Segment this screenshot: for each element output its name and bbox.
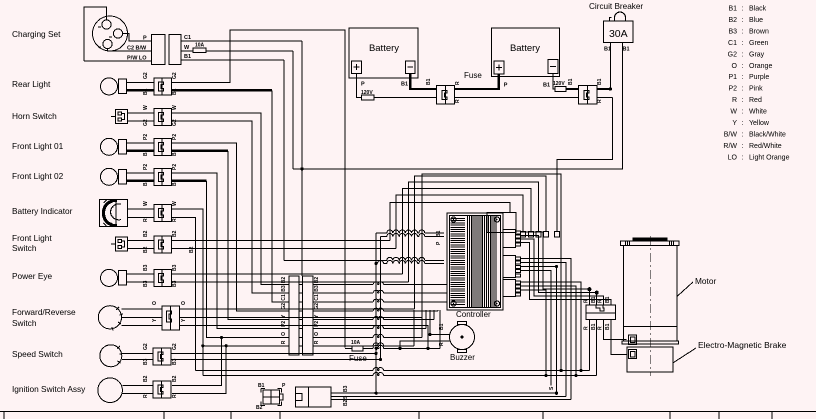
wire riser cluster 5 to controller	[415, 176, 546, 309]
svg-text:Yellow: Yellow	[749, 120, 770, 127]
8-pin connector row 4 jumper and output	[299, 310, 303, 312]
svg-text:P: P	[361, 82, 365, 88]
wire fwd/rev 1 to riser cluster	[179, 308, 414, 310]
wire front light01 B1 riser to row6	[172, 150, 229, 152]
wire riser cluster 2 to controller	[396, 195, 523, 248]
controller right connector stub 2	[503, 256, 516, 278]
horn switch	[116, 110, 128, 124]
svg-text:R: R	[314, 340, 320, 344]
front light 01 lamp	[101, 138, 118, 155]
fuse 10A	[352, 346, 363, 351]
svg-text:C1: C1	[281, 294, 287, 301]
svg-text:R: R	[172, 394, 178, 398]
svg-text:W: W	[172, 105, 178, 110]
svg-text:Light Orange: Light Orange	[749, 154, 790, 161]
wire riser cluster 6 long right	[422, 174, 561, 371]
svg-text:O: O	[314, 332, 320, 336]
wire controller group2 out 1	[521, 259, 572, 400]
wire speed switch 2 riser to controller pin	[172, 237, 381, 360]
connector front light 01	[154, 138, 162, 155]
svg-text:P2: P2	[172, 164, 178, 170]
svg-text::: :	[742, 97, 744, 104]
battery indicator gauge	[99, 199, 127, 226]
8-pin connector row 3 jumper and output	[299, 301, 303, 303]
8-pin connector row 1 jumper and output	[299, 284, 303, 286]
battery 2 minus terminal	[548, 60, 558, 74]
wire controller group2 out 4	[521, 271, 552, 386]
svg-text:Red/White: Red/White	[749, 143, 782, 150]
wire fuse connector2 to circuit breaker	[597, 88, 611, 90]
svg-text:G2: G2	[172, 72, 178, 79]
svg-text:P: P	[143, 36, 147, 42]
connector power eye	[154, 269, 162, 286]
motor body	[622, 246, 624, 341]
svg-text:Purple: Purple	[749, 74, 769, 81]
svg-text:White: White	[749, 109, 767, 116]
svg-text:B3: B3	[728, 28, 737, 35]
svg-text:B1: B1	[426, 78, 432, 85]
8-pin connector row 5 jumper and output	[299, 319, 303, 321]
forward/reverse rotary switch	[98, 306, 121, 329]
svg-text:10A: 10A	[351, 340, 361, 346]
wire power eye to riser cluster	[172, 273, 403, 275]
controller top-right terminal box	[487, 212, 516, 232]
svg-text:30A: 30A	[609, 28, 628, 40]
svg-text:B3: B3	[172, 264, 178, 271]
svg-text:Charging Set: Charging Set	[12, 29, 61, 39]
electro-magnetic brake body	[627, 347, 673, 372]
svg-text:C1: C1	[314, 294, 320, 301]
rear light wires to connector	[127, 82, 154, 84]
motor top cap	[633, 238, 667, 241]
svg-text:O: O	[152, 301, 158, 305]
svg-text:R: R	[455, 99, 461, 103]
connector front light 02	[154, 168, 162, 185]
connector ignition switch	[153, 381, 161, 398]
battery 2 plus terminal	[494, 61, 504, 74]
svg-text:W: W	[184, 45, 190, 51]
wire P from pin2 to connector	[123, 34, 152, 42]
svg-text:B3: B3	[172, 280, 178, 287]
wire riser cluster 3 to controller	[402, 189, 531, 274]
wire front light switch to riser cluster	[172, 239, 390, 241]
label Electro-Magnetic Brake with leader	[673, 348, 696, 363]
svg-text:LO: LO	[728, 154, 738, 161]
svg-text:Power Eye: Power Eye	[12, 271, 53, 281]
wire conn2 row2 stub	[597, 97, 613, 99]
svg-text:B1: B1	[597, 78, 603, 85]
connector charging 3-pin	[152, 35, 165, 65]
fuse connector F2	[579, 86, 588, 104]
connector horn switch	[154, 109, 162, 126]
svg-text:B1: B1	[184, 54, 191, 60]
front light 02 lamp	[101, 168, 118, 185]
wire bottom run 375.5	[203, 375, 373, 377]
connector rear light	[154, 78, 162, 95]
svg-text:B2: B2	[189, 246, 195, 253]
title block dividers	[3, 412, 5, 419]
motor top flange	[621, 241, 679, 246]
svg-text:B1: B1	[143, 179, 149, 186]
svg-text:B3: B3	[143, 280, 149, 287]
svg-text:Black: Black	[749, 6, 767, 13]
svg-text:Blue: Blue	[749, 17, 763, 24]
svg-text:B2: B2	[281, 277, 287, 284]
svg-text:B3: B3	[281, 285, 287, 292]
wire controller group3 out 2	[521, 286, 577, 376]
svg-text::: :	[742, 131, 744, 138]
svg-text:B3: B3	[143, 264, 149, 271]
controller screw bottom-left	[451, 301, 456, 306]
controller top terminal pins	[521, 232, 526, 238]
svg-text:B1: B1	[143, 88, 149, 95]
svg-text:B3: B3	[314, 285, 320, 292]
svg-text:G2: G2	[281, 303, 287, 310]
bottom connector wires to right	[331, 392, 557, 394]
svg-text:B2: B2	[256, 405, 263, 411]
charging socket pin 2	[113, 29, 122, 38]
svg-text:Battery Indicator: Battery Indicator	[12, 206, 73, 216]
svg-text:Rear Light: Rear Light	[12, 79, 51, 89]
svg-text:B1: B1	[591, 323, 597, 330]
svg-text::: :	[742, 6, 744, 13]
wire battery feed down to controller top	[557, 98, 613, 232]
8-pin connector row 2 jumper and output	[299, 292, 303, 294]
wire battery1 - B1 to fuse connector	[410, 73, 436, 89]
svg-text:B1: B1	[258, 383, 265, 389]
svg-text:B2: B2	[143, 230, 149, 237]
svg-text:G2: G2	[172, 343, 178, 350]
svg-text:G2: G2	[143, 343, 149, 350]
front light switch wires	[127, 239, 153, 241]
battery indicator wires	[127, 208, 153, 210]
svg-text:Buzzer: Buzzer	[450, 353, 475, 362]
wire B1 output	[181, 59, 284, 61]
controller right connector stub 3	[503, 280, 516, 297]
wire front light switch 2 to riser cluster	[172, 247, 397, 249]
svg-text:W: W	[143, 105, 149, 110]
svg-text:P2: P2	[728, 86, 737, 93]
svg-text:Orange: Orange	[749, 63, 772, 70]
svg-text:Electro-Magnetic Brake: Electro-Magnetic Brake	[698, 340, 787, 350]
wire front light02 B1 riser to row8	[172, 180, 207, 182]
brake terminal box 1	[629, 335, 637, 344]
svg-text:B/W: B/W	[724, 131, 738, 138]
wire rear light top loop to 10A fuse feed	[172, 30, 346, 347]
svg-text:C2 B/W: C2 B/W	[127, 46, 147, 52]
svg-text:B1: B1	[439, 323, 445, 330]
wire controller out to brake connector pin4	[521, 243, 612, 306]
svg-text:10A: 10A	[195, 43, 205, 49]
wire C1 output	[181, 40, 302, 42]
svg-text:W: W	[143, 201, 149, 206]
wire battery2 - B1 with diode 120V	[553, 73, 555, 89]
svg-text:O: O	[732, 63, 738, 70]
wire controller group2 out 2	[521, 263, 567, 397]
forward/reverse wires	[122, 308, 163, 310]
wire ignition 2 up to row8	[172, 346, 226, 394]
svg-text:C1: C1	[184, 35, 191, 41]
svg-text:Switch: Switch	[12, 318, 37, 328]
8-pin connector row 7 jumper and output	[299, 336, 303, 338]
svg-text:Pink: Pink	[749, 86, 763, 93]
svg-text:B3: B3	[343, 385, 349, 392]
key switch symbol	[263, 390, 280, 404]
svg-text::: :	[742, 28, 744, 35]
svg-text::: :	[742, 17, 744, 24]
title block top line	[0, 411, 816, 413]
wire power eye 2 to riser cluster	[172, 281, 409, 283]
svg-text:R: R	[439, 342, 445, 346]
svg-text:R: R	[143, 218, 149, 222]
8-pin connector row 8 jumper and output	[299, 345, 303, 347]
wire controller out to brake connector pin1	[521, 232, 590, 305]
charging socket CN1 housing	[84, 7, 107, 61]
connector 8-pin harness right half	[303, 276, 314, 355]
brake terminal box 2	[629, 350, 637, 359]
wire brake connector pin4 to brake terminal 2	[611, 319, 627, 354]
speed switch wires	[122, 352, 153, 354]
svg-text:Front Light 01: Front Light 01	[12, 141, 64, 151]
svg-text:B3: B3	[143, 358, 149, 365]
svg-text:B1: B1	[591, 296, 597, 303]
ignition wires	[122, 384, 153, 386]
wire 10A fuse row	[345, 347, 352, 349]
wire charging B1 riser to controller row	[283, 60, 285, 260]
wire breaker right leg / main B1 run	[293, 43, 622, 169]
front light switch	[116, 237, 128, 251]
svg-text:O: O	[281, 332, 287, 336]
wire harness row into controller lower-left	[375, 262, 378, 265]
svg-text:B1: B1	[605, 296, 611, 303]
svg-text::: :	[742, 109, 744, 116]
wire front light02 riser to row7	[172, 173, 290, 329]
svg-text:P1: P1	[728, 74, 737, 81]
wire battery indicator 2 to bottom run	[172, 218, 196, 371]
svg-text:Speed Switch: Speed Switch	[12, 349, 63, 359]
wire brake connector pin3 to brake terminal 1	[604, 319, 627, 339]
wire front light01 riser to row5	[172, 143, 290, 311]
fuse connector F1	[436, 86, 445, 104]
connector 8-pin harness left half	[289, 276, 299, 355]
svg-text:R: R	[597, 99, 603, 103]
svg-text:R: R	[732, 97, 737, 104]
wire C1 riser from charging	[301, 41, 303, 276]
battery 1 minus terminal	[406, 61, 415, 74]
wire fwd/rev 3 to 10A fuse row	[179, 325, 428, 348]
motor bottom flange	[622, 341, 679, 344]
svg-text:Gray: Gray	[749, 51, 765, 58]
svg-text:R: R	[455, 81, 461, 85]
battery 1	[349, 28, 418, 78]
svg-text:Y: Y	[732, 120, 737, 127]
svg-text:B1: B1	[728, 6, 737, 13]
wire controller group2 out 3	[521, 266, 557, 268]
svg-text:B2: B2	[314, 277, 320, 284]
charging socket pin 3	[103, 39, 112, 48]
svg-text::: :	[742, 51, 744, 58]
svg-text:120V: 120V	[553, 81, 565, 87]
svg-text:Battery: Battery	[510, 43, 540, 54]
wire riser cluster 1 to controller	[390, 203, 510, 241]
svg-text:R: R	[598, 299, 604, 303]
wire key riser	[556, 267, 558, 394]
wire controller group3 out 3	[521, 290, 547, 376]
label Motor with leader	[678, 282, 694, 296]
wire charging W riser	[292, 51, 294, 169]
svg-text:C1: C1	[728, 40, 737, 47]
wire battery1 + to fuse connector, diode 120V	[356, 73, 361, 97]
power eye lamp	[101, 269, 118, 286]
wire riser cluster 4 to controller	[408, 182, 538, 282]
wire brake connector pin2 down to bottom run	[596, 319, 598, 375]
wire controller out to brake connector pin2	[521, 236, 597, 306]
svg-text:R: R	[172, 218, 178, 222]
wire fwd/rev 2 to riser cluster	[179, 316, 421, 318]
svg-text:Brown: Brown	[749, 28, 769, 35]
svg-text:P: P	[504, 83, 508, 89]
svg-text::: :	[742, 143, 744, 150]
wire horn 2 riser to row2	[172, 121, 290, 293]
wire bottom run 2	[202, 345, 204, 347]
svg-text:P2: P2	[314, 321, 320, 327]
svg-text:O: O	[181, 301, 187, 305]
connector front light switch	[154, 236, 162, 253]
charging socket circle	[93, 16, 128, 51]
svg-text:Green: Green	[749, 40, 769, 47]
controller U1 body	[447, 213, 503, 310]
motor centerline	[649, 236, 651, 376]
svg-text:Horn Switch: Horn Switch	[12, 111, 57, 121]
buzzer body	[450, 325, 475, 350]
svg-text::: :	[742, 74, 744, 81]
battery 2	[491, 28, 559, 77]
svg-text:B1: B1	[623, 47, 630, 53]
svg-text::: :	[742, 63, 744, 70]
controller heatsink fins	[451, 216, 497, 307]
svg-text:R: R	[281, 340, 287, 344]
svg-text:P/W LO: P/W LO	[127, 56, 147, 62]
wire fuse row riser down to key connector wires	[375, 353, 377, 393]
diode D1 10A	[193, 48, 206, 53]
rear light lamp	[101, 78, 118, 95]
svg-text:120V: 120V	[361, 90, 373, 96]
svg-text:B2: B2	[143, 246, 149, 253]
svg-text:Front Light 02: Front Light 02	[12, 171, 64, 181]
svg-text:Ignition Switch Assy: Ignition Switch Assy	[12, 384, 86, 394]
svg-text:B2: B2	[728, 17, 737, 24]
controller screw bottom-right	[494, 301, 499, 306]
svg-text:R: R	[584, 326, 590, 330]
svg-text::: :	[742, 86, 744, 93]
wire rear light B1 riser to row3	[172, 89, 273, 91]
svg-text:B1: B1	[543, 83, 550, 89]
controller right connector stub 1	[503, 230, 516, 248]
svg-text::: :	[742, 154, 744, 161]
svg-text:B2: B2	[143, 375, 149, 382]
svg-text:B1: B1	[436, 230, 442, 237]
svg-text:B1: B1	[143, 149, 149, 156]
buzzer wires	[430, 310, 450, 335]
svg-text:Red: Red	[749, 97, 762, 104]
svg-text:W: W	[730, 109, 737, 116]
wire ignition 1 up to row7	[172, 337, 221, 385]
svg-text:B2: B2	[172, 230, 178, 237]
svg-text:R/W: R/W	[723, 143, 737, 150]
svg-text:B2: B2	[172, 375, 178, 382]
battery 1 plus terminal	[351, 61, 361, 74]
svg-text:G2: G2	[314, 303, 320, 310]
svg-text:B2: B2	[343, 399, 349, 406]
svg-text:B1: B1	[605, 323, 611, 330]
controller screw top-left	[451, 217, 456, 222]
svg-text:G2: G2	[143, 72, 149, 79]
power eye wires	[127, 273, 154, 275]
svg-text:Circuit Breaker: Circuit Breaker	[589, 2, 643, 11]
svg-text:Battery: Battery	[369, 43, 399, 54]
circuit breaker CB1 30A	[604, 21, 634, 43]
wire controller out to brake connector pin3	[521, 239, 604, 305]
connector battery indicator	[154, 205, 162, 222]
svg-text:P2: P2	[172, 134, 178, 140]
wire controller group3 out 1	[521, 282, 582, 371]
svg-text:Front Light: Front Light	[12, 233, 52, 243]
bottom harness connector	[295, 387, 330, 407]
svg-text::: :	[742, 40, 744, 47]
svg-text:Fuse: Fuse	[349, 354, 367, 363]
svg-text:B1: B1	[568, 78, 574, 85]
horn switch wires	[127, 112, 153, 114]
charging socket pin 1	[102, 20, 111, 29]
wire P/W LO	[84, 60, 152, 62]
front light 02 wires	[127, 172, 154, 174]
svg-text:P2: P2	[143, 134, 149, 140]
svg-text:R: R	[584, 299, 590, 303]
wire breaker left leg	[609, 43, 611, 89]
wire W output with diode D1	[181, 50, 193, 52]
svg-text:B1: B1	[401, 82, 408, 88]
wire brake connector pin1 down to bottom run	[588, 319, 590, 370]
svg-text:Forward/Reverse: Forward/Reverse	[12, 307, 76, 317]
connector speed switch	[153, 348, 161, 365]
wire battery indicator riser to bottom run	[172, 209, 290, 346]
ignition switch	[98, 378, 123, 403]
svg-text:Fuse: Fuse	[464, 71, 482, 80]
wire fuse connector to battery2 +	[455, 74, 499, 89]
wire horn 1 riser to row1	[172, 113, 290, 285]
svg-text:R: R	[143, 394, 149, 398]
svg-text:Black/White: Black/White	[749, 131, 786, 138]
svg-text:Controller: Controller	[456, 310, 491, 319]
svg-text:P2: P2	[143, 164, 149, 170]
speed switch rotary	[100, 345, 122, 367]
svg-text:G2: G2	[172, 119, 178, 126]
svg-text:P2: P2	[281, 321, 287, 327]
controller screw top-right	[494, 217, 499, 222]
wire C2 B/W	[108, 49, 152, 51]
svg-text:W: W	[172, 201, 178, 206]
8-pin connector row 6 jumper and output	[299, 327, 303, 329]
brake connector block	[586, 305, 616, 313]
svg-text:G2: G2	[143, 119, 149, 126]
svg-text:G2: G2	[728, 51, 737, 58]
svg-text:Motor: Motor	[695, 276, 716, 286]
front light 01 wires	[127, 142, 154, 144]
svg-text::: :	[742, 120, 744, 127]
wire speed switch 1 riser to controller pin	[172, 233, 377, 353]
svg-text:Switch: Switch	[12, 243, 37, 253]
svg-text:R: R	[598, 326, 604, 330]
